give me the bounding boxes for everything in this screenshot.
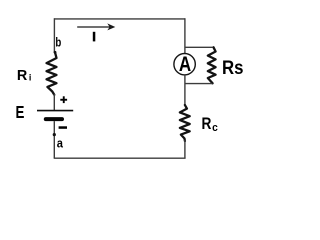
ammeter U1 circle [174, 53, 195, 74]
label I [93, 32, 96, 42]
svg-text:A: A [179, 53, 191, 76]
node b [54, 51, 57, 54]
resistor R1 (Ri) [47, 52, 57, 95]
wire right upper [184, 18, 186, 53]
wire left upper [53, 18, 55, 52]
resistor R3 (Rc) [180, 105, 190, 141]
wire shunt bottom branch [185, 83, 213, 85]
svg-text:Rs: Rs [222, 57, 244, 79]
svg-text:R: R [202, 114, 212, 133]
current arrow [77, 23, 115, 30]
svg-text:R: R [17, 67, 28, 84]
label plus [60, 96, 67, 103]
svg-text:b: b [55, 36, 61, 50]
wire battery top lead [53, 94, 55, 110]
wire right middle [184, 75, 186, 105]
svg-text:c: c [212, 122, 218, 134]
wire right lower [184, 140, 186, 158]
label minus [59, 126, 67, 129]
wire bottom [54, 157, 186, 159]
svg-text:i: i [29, 73, 32, 84]
svg-text:E: E [16, 102, 25, 122]
wire shunt top branch [185, 46, 213, 48]
resistor R2 (Rs) [208, 47, 216, 83]
battery E long plate [37, 110, 73, 112]
svg-text:a: a [57, 135, 64, 150]
battery E short thick plate [44, 117, 64, 121]
wire battery bottom lead [53, 121, 55, 158]
wire top [54, 18, 185, 20]
node a [53, 133, 56, 136]
